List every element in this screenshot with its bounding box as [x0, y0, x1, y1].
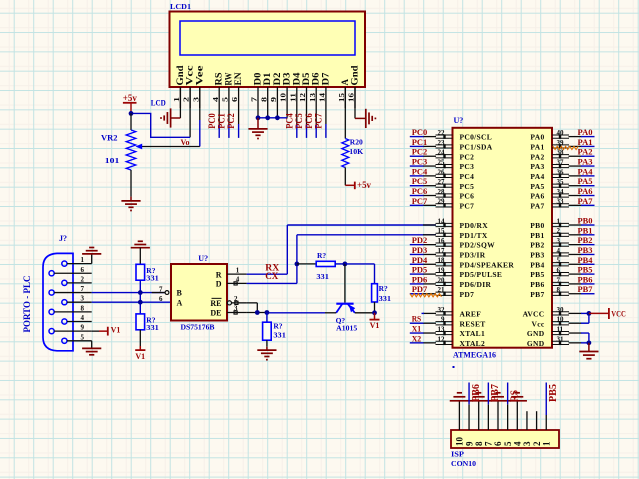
- svg-text:31: 31: [557, 335, 565, 343]
- svg-text:A: A: [177, 298, 183, 307]
- svg-text:PC2: PC2: [412, 147, 428, 157]
- svg-text:PD7: PD7: [460, 290, 475, 299]
- net label PA7 with wire: [578, 196, 595, 206]
- svg-text:PB0: PB0: [578, 216, 593, 226]
- svg-text:PC3: PC3: [460, 162, 475, 171]
- U? pin 30 AVCC: [523, 306, 582, 319]
- svg-text:2: 2: [557, 227, 561, 235]
- svg-text:PA1: PA1: [530, 143, 544, 152]
- svg-text:21: 21: [438, 286, 446, 294]
- wire base resistor to junction: [335, 263, 345, 265]
- wire junction to pull-up resistor: [345, 264, 375, 284]
- svg-text:2: 2: [81, 275, 85, 283]
- svg-text:24: 24: [438, 149, 446, 157]
- J? pin 3: [62, 295, 92, 305]
- svg-text:26: 26: [438, 168, 446, 176]
- svg-text:PB3: PB3: [530, 251, 544, 260]
- wire ISP pin 5 with net label RS: [508, 383, 521, 431]
- svg-text:+5v: +5v: [357, 180, 371, 190]
- U? pin 40 PA0: [530, 129, 581, 142]
- svg-text:6: 6: [159, 295, 163, 303]
- svg-text:PC1/SDA: PC1/SDA: [460, 143, 493, 152]
- wire J? pin5 to ground: [91, 341, 93, 348]
- U? pin 6 PB5: [530, 267, 581, 280]
- svg-text:11: 11: [288, 93, 297, 102]
- svg-text:2: 2: [532, 441, 542, 446]
- svg-text:38: 38: [557, 149, 565, 157]
- svg-text:PD1/TX: PD1/TX: [460, 231, 488, 240]
- svg-text:PA6: PA6: [530, 192, 544, 201]
- wire GND pin11: [581, 333, 589, 343]
- wire LCD pin16 to ground: [355, 87, 366, 118]
- wire ISP pin 1 with net label PB5: [546, 383, 559, 431]
- ground above bias resistor: [131, 247, 150, 249]
- power +5v (below R20): [345, 180, 371, 190]
- U? pin 27 PC5: [423, 178, 474, 191]
- svg-text:Vcc: Vcc: [532, 319, 545, 328]
- svg-text:25: 25: [438, 158, 446, 166]
- U? pin 16 PD2/SQW: [423, 237, 495, 250]
- svg-text:EN: EN: [234, 72, 244, 85]
- net label PC1 with wire: [410, 137, 427, 147]
- power VCC: [589, 308, 626, 319]
- net label X2 with wire: [410, 333, 424, 343]
- svg-text:RS: RS: [509, 390, 520, 402]
- wire base vertical: [344, 264, 346, 303]
- net label PB5 with wire: [578, 265, 595, 275]
- wire LCD pin4 with net label PC0: [207, 108, 219, 138]
- svg-text:R?: R?: [379, 284, 388, 293]
- svg-text:5: 5: [221, 97, 230, 102]
- svg-text:331: 331: [146, 274, 159, 283]
- svg-text:39: 39: [557, 139, 565, 147]
- U? pin 37 PA3: [530, 158, 581, 171]
- transceiver U? DS75176B: [171, 264, 227, 321]
- U? pin 23 PC1/SDA: [423, 139, 493, 152]
- net label PB2 with wire: [578, 235, 595, 245]
- net label PC2 with wire: [410, 147, 427, 157]
- svg-text:PB7: PB7: [530, 290, 544, 299]
- svg-text:PA7: PA7: [578, 196, 594, 206]
- svg-text:PA0: PA0: [578, 127, 593, 137]
- svg-text:PB2: PB2: [578, 235, 593, 245]
- svg-text:Vee: Vee: [195, 66, 205, 86]
- svg-text:33: 33: [557, 198, 565, 206]
- svg-text:PB4: PB4: [578, 255, 594, 265]
- net label PC7 with wire: [410, 196, 428, 206]
- svg-text:19: 19: [438, 267, 446, 275]
- power +5v (top, at VR2): [123, 93, 137, 113]
- svg-text:Gnd: Gnd: [176, 65, 186, 86]
- svg-text:7: 7: [159, 285, 163, 293]
- svg-text:PD3/IR: PD3/IR: [460, 251, 486, 260]
- svg-text:8: 8: [81, 304, 85, 312]
- svg-text:16: 16: [438, 237, 446, 245]
- microcontroller U? ATMEGA16: [453, 128, 553, 348]
- svg-text:3: 3: [191, 97, 200, 102]
- svg-text:11: 11: [557, 325, 564, 333]
- ground above ISP pin 8 (inverted): [469, 400, 488, 402]
- svg-text:XTAL1: XTAL1: [460, 329, 486, 338]
- wire LCD pin14 with net label PC7: [314, 108, 326, 138]
- svg-text:PA3: PA3: [530, 162, 544, 171]
- U? pin 1 (R): [227, 266, 247, 274]
- svg-text:A: A: [341, 79, 351, 86]
- svg-text:3: 3: [522, 441, 532, 446]
- net label PD7 with wire: [410, 284, 428, 294]
- svg-text:VCC: VCC: [611, 309, 626, 319]
- net label PA1 with wire: [578, 137, 595, 147]
- svg-text:PC1: PC1: [217, 113, 227, 129]
- net label PB7 with wire: [578, 284, 595, 294]
- J? pin 8: [49, 304, 92, 314]
- svg-text:CX: CX: [265, 271, 278, 281]
- wire through B and A junctions: [139, 280, 141, 314]
- LCD pin stub lines: [180, 87, 355, 108]
- svg-text:PB7: PB7: [490, 384, 501, 402]
- svg-text:PA2: PA2: [530, 152, 544, 161]
- wire ISP pin 8 to ground: [478, 401, 480, 430]
- svg-text:PC6: PC6: [304, 113, 314, 129]
- svg-text:12: 12: [438, 335, 446, 343]
- svg-text:3: 3: [81, 295, 85, 303]
- wire LCD pin6 with net label PC2: [226, 108, 238, 138]
- svg-text:PB6: PB6: [471, 384, 482, 402]
- svg-text:D5: D5: [302, 72, 312, 85]
- svg-text:1: 1: [557, 217, 561, 225]
- J? pin 7: [49, 285, 92, 295]
- U? pin 9 RESET: [423, 316, 486, 329]
- wire LCD pin15 to R20: [344, 87, 346, 139]
- U? pin 29 PC7: [423, 198, 474, 211]
- svg-text:PORTO - PLC: PORTO - PLC: [23, 275, 33, 332]
- U? pin 7 PB6: [530, 276, 581, 289]
- svg-text:6: 6: [493, 441, 503, 446]
- svg-text:PB6: PB6: [530, 280, 544, 289]
- svg-text:AVCC: AVCC: [523, 310, 545, 319]
- net label PA2 with wire: [578, 147, 595, 157]
- svg-text:PC4: PC4: [284, 113, 294, 129]
- wire LCD pin5 with net label PC1: [217, 108, 229, 138]
- U? pin 38 PA2: [530, 149, 581, 162]
- U? pin 39 PA1: [530, 139, 581, 152]
- junction D1 bus: [265, 115, 270, 120]
- svg-text:PC1: PC1: [412, 137, 428, 147]
- junction CX/base-resistor: [295, 262, 300, 267]
- svg-text:PA4: PA4: [578, 166, 594, 176]
- wire +5v junction to Vcc pin2: [131, 113, 190, 137]
- svg-text:7: 7: [250, 97, 259, 102]
- svg-text:PD6/DIR: PD6/DIR: [460, 280, 492, 289]
- svg-text:V1: V1: [111, 326, 121, 335]
- svg-text:PB5: PB5: [578, 265, 593, 275]
- wire ISP pin 9 with net label PB6: [469, 383, 482, 431]
- junction base/pull-up: [343, 262, 348, 267]
- svg-text:R?: R?: [273, 322, 282, 331]
- wire LCD pin3 (Vee) down: [199, 87, 201, 120]
- svg-text:RESET: RESET: [460, 319, 486, 328]
- svg-text:3: 3: [234, 305, 238, 313]
- svg-text:7: 7: [484, 441, 494, 446]
- U? pin 14 PD0/RX: [423, 217, 488, 230]
- junction D0 bus: [256, 115, 261, 120]
- ground above ISP pin 10 (inverted): [450, 400, 469, 402]
- svg-text:D7: D7: [321, 72, 331, 85]
- U? pin name RE (active low): [210, 298, 221, 308]
- svg-text:PA1: PA1: [578, 137, 593, 147]
- resistor R? (upper bias 331): [136, 264, 145, 280]
- U? pin 25 PC3: [423, 158, 474, 171]
- svg-text:PD3: PD3: [412, 245, 428, 255]
- svg-text:34: 34: [557, 188, 565, 196]
- svg-text:PB5: PB5: [548, 384, 559, 402]
- svg-text:9: 9: [441, 316, 445, 324]
- J? pin 9: [49, 324, 92, 334]
- U? pin 3 (DE): [227, 305, 247, 314]
- svg-text:J?: J?: [59, 234, 67, 243]
- ground at D0-D3 bus: [248, 118, 267, 139]
- J? pin 4: [62, 314, 92, 324]
- wire AVCC to VCC: [581, 312, 589, 314]
- svg-text:PA5: PA5: [578, 176, 593, 186]
- svg-text:1: 1: [541, 441, 551, 446]
- svg-text:PC4: PC4: [460, 172, 475, 181]
- net label PD2 with wire: [410, 235, 427, 245]
- U? pin 26 PC4: [423, 168, 474, 181]
- svg-text:8: 8: [259, 97, 268, 102]
- junction RE/DE: [255, 310, 260, 315]
- ground at ATMEGA GND: [579, 343, 598, 359]
- svg-text:PA6: PA6: [578, 186, 593, 196]
- svg-text:9: 9: [81, 324, 85, 332]
- svg-text:4: 4: [513, 441, 523, 446]
- svg-text:U?: U?: [198, 254, 208, 263]
- U? pin 24 PC2: [423, 149, 474, 162]
- wire emitter to V1: [355, 312, 375, 314]
- wire ISP pin 2 stub: [536, 411, 538, 430]
- svg-text:PD5/PULSE: PD5/PULSE: [460, 270, 503, 279]
- svg-text:13: 13: [308, 93, 317, 102]
- wire D pin to PD1 (CX): [247, 235, 436, 284]
- svg-text:4: 4: [236, 276, 240, 284]
- U? pin 18 PD4/SPEAKER: [423, 257, 514, 270]
- svg-text:PC0: PC0: [412, 127, 428, 137]
- svg-text:D1: D1: [263, 72, 273, 85]
- J? pin 6: [49, 266, 92, 276]
- svg-text:9: 9: [464, 441, 474, 446]
- wire ISP pin 7 with net label PB7: [488, 383, 501, 431]
- svg-text:29: 29: [438, 198, 446, 206]
- svg-text:101: 101: [105, 156, 120, 165]
- junction GND pins: [587, 340, 592, 345]
- svg-text:V1: V1: [135, 352, 145, 361]
- U? pin 2 PB1: [530, 227, 581, 240]
- svg-text:+5v: +5v: [123, 93, 137, 103]
- ground below VR2: [121, 197, 140, 211]
- junction +5v/VR2/Vcc: [129, 111, 134, 116]
- net label PC4 with wire: [410, 166, 428, 176]
- svg-text:331: 331: [379, 294, 392, 303]
- U? pin 2 (RE) with bubble: [227, 295, 246, 305]
- svg-text:PB7: PB7: [578, 284, 594, 294]
- ERC marker on PA1: [553, 146, 578, 149]
- wire J? pin7 to DS75176B B: [92, 292, 165, 294]
- wire ISP pin 6 to ground: [497, 401, 499, 430]
- svg-text:PA3: PA3: [578, 157, 593, 167]
- wire RE to DE junction: [247, 303, 267, 313]
- svg-text:7: 7: [81, 285, 85, 293]
- wire GND pin31: [581, 342, 589, 344]
- ground at J? pin1 (inverted): [82, 253, 101, 255]
- wire LCD pin1 to ground: [179, 87, 181, 118]
- U? pin 10 Vcc: [532, 316, 582, 329]
- net label PD5 with wire: [410, 265, 427, 275]
- ground above ISP pin 4 (inverted): [508, 400, 527, 402]
- net label X1 with wire: [410, 324, 424, 334]
- wire to base resistor: [297, 263, 316, 265]
- svg-text:GND: GND: [527, 339, 545, 348]
- svg-text:RW: RW: [224, 72, 234, 85]
- ground at LCD pin16 (sideways right): [365, 109, 367, 128]
- svg-text:10K: 10K: [349, 147, 363, 156]
- svg-text:PC7: PC7: [412, 196, 428, 206]
- svg-text:10: 10: [557, 316, 565, 324]
- net label PA6 with wire: [578, 186, 595, 196]
- svg-text:PC0/SCL: PC0/SCL: [460, 133, 493, 142]
- svg-text:PC4: PC4: [412, 166, 428, 176]
- ground at J? pin5: [82, 347, 101, 349]
- svg-text:PC6: PC6: [412, 186, 428, 196]
- svg-text:U?: U?: [454, 116, 464, 125]
- junction bias/A wire: [138, 300, 143, 305]
- svg-text:4: 4: [81, 314, 85, 322]
- svg-text:2: 2: [182, 97, 191, 102]
- svg-text:3: 3: [557, 237, 561, 245]
- svg-text:PD4: PD4: [412, 255, 428, 265]
- svg-text:9: 9: [269, 97, 278, 102]
- resistor R? (emitter 331): [372, 284, 378, 302]
- svg-text:D3: D3: [283, 72, 293, 85]
- U? pin 11 GND: [527, 325, 582, 338]
- svg-text:23: 23: [438, 139, 446, 147]
- svg-text:PA0: PA0: [530, 133, 544, 142]
- svg-text:PC2: PC2: [460, 152, 475, 161]
- svg-text:4: 4: [557, 247, 561, 255]
- wire collector to RE/DE junction: [267, 312, 336, 314]
- U? pin 34 PA6: [530, 188, 581, 201]
- svg-text:331: 331: [146, 323, 159, 332]
- U? pin 6 (A): [159, 295, 163, 303]
- svg-text:1: 1: [172, 97, 181, 102]
- potentiometer VR2: [126, 113, 136, 196]
- wire ISP pin 10 to ground: [458, 401, 460, 430]
- wire pull resistor to ground: [266, 340, 268, 347]
- power V1 below bias resistor: [135, 330, 145, 361]
- net label PB0 with wire: [578, 216, 595, 226]
- svg-text:ISP: ISP: [451, 450, 464, 459]
- svg-text:37: 37: [557, 158, 565, 166]
- svg-text:6: 6: [81, 266, 85, 274]
- LCD screen area: [180, 21, 355, 55]
- junction emitter/V1: [372, 310, 377, 315]
- svg-text:8: 8: [474, 441, 484, 446]
- svg-text:RS: RS: [215, 73, 225, 86]
- net label PC5 with wire: [410, 176, 427, 186]
- svg-text:PD6: PD6: [412, 274, 428, 284]
- svg-text:XTAL2: XTAL2: [460, 339, 486, 348]
- svg-text:PD2/SQW: PD2/SQW: [460, 241, 496, 250]
- svg-text:7: 7: [557, 276, 561, 284]
- svg-text:PB3: PB3: [578, 245, 593, 255]
- svg-text:1: 1: [236, 266, 240, 274]
- svg-text:PA7: PA7: [530, 201, 544, 210]
- net label PC0 with wire: [410, 127, 427, 137]
- svg-text:10: 10: [455, 437, 465, 447]
- U? pin 13 XTAL1: [423, 325, 485, 338]
- wire AREF stub: [422, 312, 425, 314]
- svg-text:5: 5: [81, 333, 85, 341]
- svg-text:PC6: PC6: [460, 192, 475, 201]
- VR2 wiper arrow: [135, 144, 142, 150]
- svg-text:AREF: AREF: [460, 310, 482, 319]
- wire ISP pin 4 to ground: [516, 401, 518, 430]
- svg-text:12: 12: [298, 93, 307, 102]
- svg-text:RE: RE: [210, 299, 221, 308]
- net label PC3 with wire: [410, 157, 427, 167]
- net label PA3 with wire: [578, 157, 595, 167]
- U? pin 19 PD5/PULSE: [423, 267, 502, 280]
- ground at LCD pin1 (sideways left): [170, 108, 172, 127]
- svg-text:28: 28: [438, 188, 446, 196]
- wire J? pin3 to DS75176B A: [92, 301, 171, 303]
- svg-text:PC5: PC5: [294, 113, 304, 129]
- junction DE/pull resistor: [265, 310, 270, 315]
- svg-text:PC0: PC0: [207, 113, 217, 129]
- svg-text:PC3: PC3: [412, 157, 428, 167]
- ERC marker on PD7: [410, 294, 442, 297]
- ground below enable resistor: [257, 347, 276, 360]
- LCD module LCD1: [170, 12, 366, 88]
- svg-text:X1: X1: [412, 324, 422, 334]
- stray blue mark below ATMEGA16: [453, 366, 455, 368]
- U? pin 35 PA5: [530, 178, 581, 191]
- svg-text:22: 22: [438, 129, 446, 137]
- svg-text:32: 32: [438, 306, 446, 314]
- svg-text:16: 16: [347, 93, 356, 102]
- U? pin 28 PC6: [423, 188, 474, 201]
- svg-text:PA5: PA5: [530, 182, 544, 191]
- wire R pin to PD0 (RX): [247, 225, 436, 274]
- U? pin 8 PB7: [530, 286, 581, 299]
- resistor R20: [342, 139, 349, 168]
- svg-text:GND: GND: [527, 329, 545, 338]
- svg-text:2: 2: [234, 295, 238, 303]
- net label PD6 with wire: [410, 274, 427, 284]
- U? pin 17 PD3/IR: [423, 247, 486, 260]
- svg-text:PD0/RX: PD0/RX: [460, 221, 489, 230]
- resistor R? (base 331): [316, 261, 335, 266]
- svg-text:PC2: PC2: [226, 113, 236, 129]
- wire resistor to emitter junction: [374, 302, 376, 313]
- net label PD3 with wire: [410, 245, 427, 255]
- svg-text:PD5: PD5: [412, 265, 428, 275]
- connector J? DB9 PORTO-PLC: [43, 253, 73, 350]
- svg-text:R: R: [216, 270, 222, 279]
- net label RS with wire: [410, 314, 424, 324]
- svg-text:PC7: PC7: [314, 113, 324, 129]
- svg-text:V1: V1: [370, 321, 380, 330]
- connector ISP CON10: [451, 430, 559, 448]
